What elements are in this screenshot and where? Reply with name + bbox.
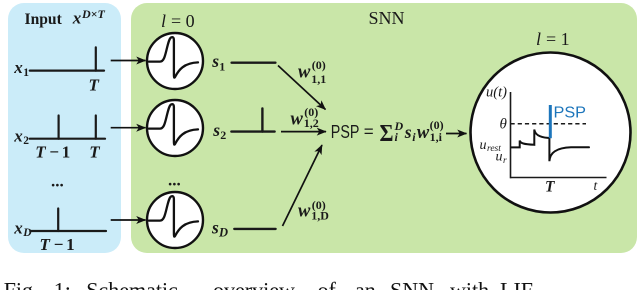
svg-text:u(t): u(t): [486, 84, 507, 100]
label Input x^{DxT}: [25, 7, 106, 28]
x1 spike train: [30, 47, 104, 70]
svg-text:2: 2: [220, 128, 226, 142]
svg-text:1: 1: [23, 67, 29, 79]
svg-text:w: w: [417, 123, 430, 143]
threshold dashed line: [511, 123, 587, 125]
svg-text:an: an: [355, 278, 376, 290]
svg-text:1,1: 1,1: [311, 72, 326, 86]
svg-text:w: w: [298, 62, 311, 82]
svg-text:of: of: [318, 278, 337, 290]
svg-text:LIF: LIF: [500, 278, 533, 290]
s2 output line with spike: [231, 108, 274, 131]
svg-text:u: u: [480, 138, 487, 153]
svg-text:Schematic: Schematic: [86, 278, 178, 290]
label u(t): [486, 84, 507, 100]
svg-text:SNN: SNN: [369, 8, 405, 28]
node xD: [13, 219, 32, 240]
svg-text:PSP: PSP: [331, 121, 360, 142]
label s1: [211, 51, 225, 73]
svg-text:s: s: [404, 122, 412, 142]
svg-text:T: T: [89, 75, 100, 94]
svg-text:−: −: [54, 235, 64, 254]
xD spike train: [30, 209, 106, 232]
svg-text:D: D: [22, 227, 32, 239]
svg-text:θ: θ: [500, 117, 508, 133]
s1 output line: [232, 62, 276, 64]
svg-text:Fig.: Fig.: [4, 278, 39, 290]
svg-text:=: =: [364, 122, 374, 141]
membrane potential curve: [511, 130, 589, 162]
svg-text:overview: overview: [213, 278, 295, 290]
svg-text:Σ: Σ: [380, 120, 394, 147]
ellipsis between neurons: [168, 170, 181, 189]
svg-text:−: −: [49, 142, 59, 161]
svg-text:x: x: [13, 126, 23, 145]
wire arrow x2 to neuron2: [111, 127, 146, 129]
PSP spike (blue): [549, 105, 552, 138]
svg-text:x: x: [72, 9, 82, 28]
neuron circle 1: [147, 33, 203, 89]
PSP formula: [331, 118, 444, 147]
neuron circle 3: [147, 192, 203, 248]
label T-1 (xD): [40, 235, 75, 254]
svg-text:r: r: [503, 156, 507, 166]
label T-1 (x2): [35, 142, 100, 161]
svg-text:l: l: [161, 11, 166, 31]
weight w1D: [298, 198, 329, 223]
x2 spike train: [30, 116, 105, 139]
wire arrow xD to neuron3: [111, 219, 146, 221]
svg-text:w: w: [298, 201, 311, 221]
arrow PSP to neuron l=1: [446, 133, 467, 135]
sD output line: [234, 228, 275, 230]
arrow s2 to PSP: [281, 131, 326, 133]
plot y-axis: [510, 92, 512, 178]
svg-text:D: D: [218, 225, 228, 239]
label u_r: [496, 150, 508, 166]
node x2: [13, 126, 29, 147]
svg-text:= 0: = 0: [171, 11, 195, 31]
svg-text:PSP: PSP: [554, 105, 587, 122]
label sD: [211, 217, 228, 239]
svg-text:l: l: [536, 29, 541, 49]
svg-text:x: x: [13, 58, 23, 77]
label theta: [500, 117, 508, 133]
input panel: [8, 3, 121, 253]
label l = 1: [536, 29, 570, 49]
arrow sD to PSP: [283, 145, 323, 226]
weight w12: [291, 105, 319, 130]
label u_rest: [480, 138, 502, 154]
svg-text:w: w: [291, 109, 304, 129]
svg-text:1,i: 1,i: [430, 130, 443, 144]
label l = 0: [161, 11, 195, 31]
neuron circle 2: [147, 100, 203, 156]
label T (plot): [545, 179, 555, 196]
wire arrow x1 to neuron1: [111, 60, 146, 62]
svg-text:...: ...: [51, 172, 64, 191]
output neuron circle l=1: [471, 53, 631, 213]
svg-text:s: s: [211, 217, 219, 237]
svg-text:(0): (0): [312, 58, 326, 72]
svg-text:D×T: D×T: [81, 7, 106, 21]
svg-text:1,D: 1,D: [311, 209, 329, 223]
svg-text:T: T: [40, 235, 51, 254]
svg-text:s: s: [211, 51, 219, 71]
plot x-axis: [511, 177, 607, 179]
label t (plot): [594, 178, 599, 193]
label s2: [212, 120, 226, 142]
svg-text:T: T: [35, 142, 46, 161]
svg-text:1: 1: [62, 142, 71, 161]
svg-text:2: 2: [23, 135, 29, 147]
snn panel: [131, 3, 637, 253]
label PSP (blue): [554, 105, 587, 122]
caption: [0, 261, 640, 290]
svg-text:1: 1: [219, 59, 225, 73]
svg-text:1: 1: [66, 235, 75, 254]
svg-text:with: with: [450, 278, 489, 290]
svg-text:= 1: = 1: [546, 29, 570, 49]
svg-text:s: s: [212, 120, 220, 140]
arrow s1 to PSP: [278, 66, 326, 110]
svg-text:Input: Input: [25, 11, 63, 28]
svg-text:u: u: [496, 150, 503, 165]
svg-text:SNN: SNN: [390, 278, 434, 290]
svg-text:1:: 1:: [54, 278, 71, 290]
svg-text:T: T: [89, 142, 100, 161]
weight w11: [298, 58, 326, 86]
ellipsis input: [51, 172, 64, 191]
svg-text:1,2: 1,2: [304, 116, 319, 130]
label SNN: [369, 8, 405, 28]
svg-text:T: T: [545, 179, 555, 196]
node x1: [13, 58, 29, 79]
svg-text:...: ...: [168, 170, 181, 189]
svg-text:x: x: [13, 219, 23, 238]
label T (x1): [89, 75, 100, 94]
